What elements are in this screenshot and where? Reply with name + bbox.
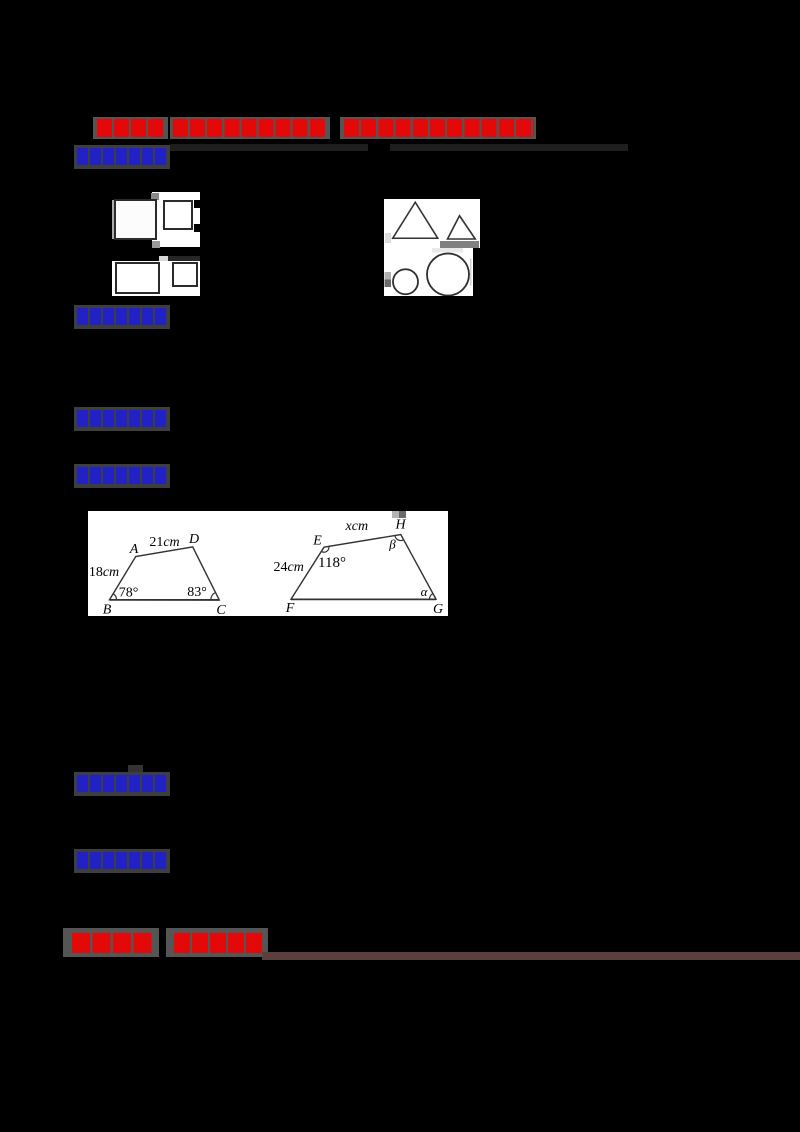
svg-text:B: B [103,603,112,617]
svg-text:G: G [433,602,443,616]
svg-text:21cm: 21cm [149,535,179,550]
svg-text:E: E [312,534,322,549]
svg-text:xcm: xcm [345,519,369,534]
svg-text:α: α [421,584,429,599]
svg-text:24cm: 24cm [274,560,304,575]
svg-text:C: C [216,603,226,616]
svg-text:F: F [285,601,295,616]
svg-text:78°: 78° [119,586,139,601]
svg-text:18cm: 18cm [89,565,119,580]
svg-text:118°: 118° [318,555,346,571]
svg-text:β: β [388,537,396,552]
svg-text:83°: 83° [187,585,207,600]
svg-text:D: D [188,532,199,547]
svg-text:H: H [394,518,406,533]
svg-text:A: A [129,542,139,557]
